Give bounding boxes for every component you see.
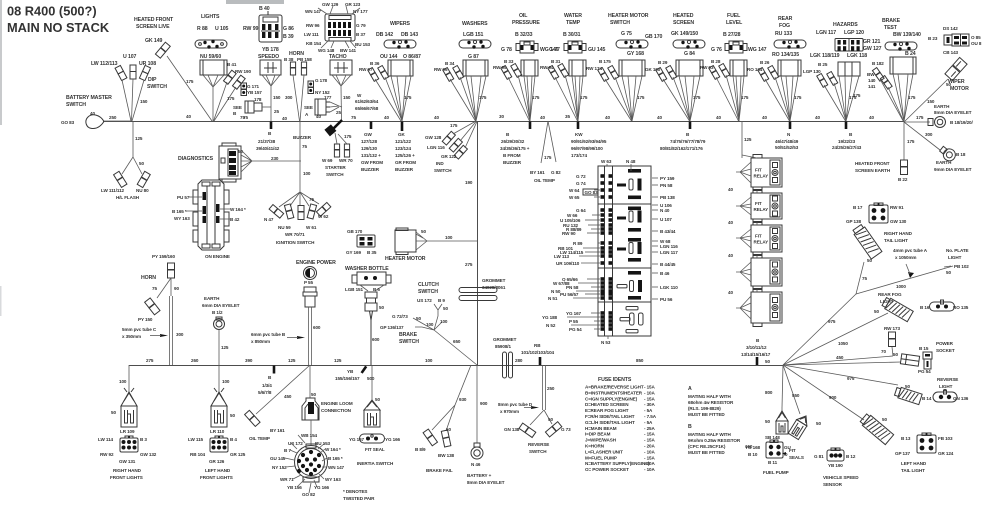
svg-text:B 13: B 13 [901, 436, 911, 441]
svg-text:175: 175 [693, 95, 701, 100]
right hand tail light connector [852, 224, 882, 259]
svg-text:B 27/28: B 27/28 [723, 32, 741, 38]
svg-text:100: 100 [222, 379, 230, 384]
svg-text:300: 300 [176, 332, 184, 337]
svg-text:35: 35 [565, 114, 570, 119]
svg-text:U 105: U 105 [215, 26, 229, 32]
svg-text:YB: YB [347, 369, 354, 374]
tacho feed box [330, 60, 352, 75]
svg-text:DIP: DIP [148, 77, 157, 83]
svg-text:- 25A: - 25A [644, 426, 656, 431]
ignition switch connectors [269, 205, 284, 219]
svg-text:50: 50 [421, 229, 426, 234]
reverse switch fork wires [530, 410, 552, 425]
svg-text:N 53: N 53 [601, 340, 611, 345]
svg-text:50/51/52/53: 50/51/52/53 [775, 145, 799, 150]
svg-text:OIL TEMP: OIL TEMP [534, 178, 555, 183]
svg-text:BW 139/140: BW 139/140 [893, 32, 921, 38]
svg-text:GW 129: GW 129 [322, 2, 339, 7]
svg-text:25: 25 [336, 110, 341, 115]
svg-text:800: 800 [765, 390, 773, 395]
lights fan wires [203, 75, 224, 87]
svg-text:230: 230 [271, 156, 279, 161]
svg-text:B 36: B 36 [370, 61, 380, 66]
scan streak left edge [0, 0, 2, 125]
svg-text:FRONT LIGHTS: FRONT LIGHTS [200, 475, 233, 480]
heater motor box [395, 228, 416, 255]
svg-text:G 72: G 72 [576, 174, 586, 179]
wire speedo to bus [270, 86, 272, 121]
svg-text:650: 650 [453, 339, 461, 344]
svg-text:100: 100 [119, 379, 127, 384]
svg-text:600: 600 [313, 325, 321, 330]
speedo feed box [260, 60, 281, 75]
svg-text:G 171: G 171 [247, 84, 260, 89]
speedo fan [262, 75, 280, 86]
svg-text:B 182: B 182 [872, 61, 884, 66]
svg-text:CB 143: CB 143 [943, 50, 959, 55]
svg-text:19/22/23: 19/22/23 [838, 139, 856, 144]
wire tacho to bus [340, 86, 343, 121]
svg-text:IGNITION SWITCH: IGNITION SWITCH [276, 240, 315, 245]
svg-text:MUST BE FITTED: MUST BE FITTED [688, 412, 725, 417]
reverse switch tube D wire [543, 365, 546, 410]
vehicle speed sensor connector [827, 448, 844, 461]
svg-text:BUZZER: BUZZER [395, 167, 414, 172]
svg-text:R 89: R 89 [573, 241, 583, 246]
svg-text:WY 163: WY 163 [325, 477, 341, 482]
svg-text:40: 40 [384, 115, 389, 120]
svg-text:100: 100 [445, 235, 453, 240]
svg-text:LGK 118/119: LGK 118/119 [810, 53, 840, 59]
svg-text:P 55: P 55 [304, 280, 314, 285]
svg-text:FIT: FIT [789, 448, 796, 453]
svg-text:MAIN NO STACK: MAIN NO STACK [7, 20, 110, 35]
svg-text:YG 188: YG 188 [542, 315, 558, 320]
pins G178 NY152 [308, 81, 314, 94]
relay K2 fan wires [736, 197, 751, 215]
svg-text:40: 40 [815, 115, 820, 120]
svg-text:MATING HALF WITH: MATING HALF WITH [688, 394, 731, 399]
svg-text:61/62/63/64: 61/62/63/64 [355, 99, 379, 104]
right hand front lights socket [120, 436, 138, 452]
svg-text:RU 133: RU 133 [775, 31, 792, 37]
svg-text:GW FROM: GW FROM [361, 160, 383, 165]
svg-text:65/66/67/68: 65/66/67/68 [355, 106, 379, 111]
svg-text:LW 113: LW 113 [554, 254, 570, 259]
svg-text:24/25/26/27/43: 24/25/26/27/43 [832, 145, 862, 150]
svg-text:LGK 110: LGK 110 [660, 285, 678, 290]
svg-text:450: 450 [836, 355, 844, 360]
svg-text:(RLS. 199-8829): (RLS. 199-8829) [688, 406, 721, 411]
svg-text:300: 300 [285, 95, 293, 100]
lights round connector [195, 40, 227, 49]
connector PY 150 [145, 298, 160, 315]
svg-text:NU 80: NU 80 [136, 188, 149, 193]
heated front screen earth drop [903, 122, 905, 160]
svg-text:175: 175 [907, 139, 915, 144]
svg-text:G 81: G 81 [814, 454, 824, 459]
svg-text:DIAGNOSTICS: DIAGNOSTICS [178, 156, 214, 162]
svg-text:6mm pvc tube B: 6mm pvc tube B [251, 332, 286, 337]
svg-text:8mm DIA EYELET: 8mm DIA EYELET [934, 110, 972, 115]
svg-text:175: 175 [908, 95, 916, 100]
svg-text:GW 132: GW 132 [140, 452, 157, 457]
left hand front lights drop [218, 365, 220, 392]
svg-text:B 8/9: B 8/9 [415, 447, 426, 452]
reverse switch connector GN 138 [519, 423, 536, 437]
svg-text:141: 141 [868, 84, 876, 89]
svg-text:LGN 117: LGN 117 [660, 250, 678, 255]
svg-text:9Kohm 0.25w RESISTOR: 9Kohm 0.25w RESISTOR [688, 438, 741, 443]
svg-text:SWITCH: SWITCH [434, 168, 452, 173]
svg-text:CLUTCH: CLUTCH [418, 282, 439, 288]
svg-text:SENSOR: SENSOR [823, 482, 843, 487]
svg-text:50: 50 [230, 413, 235, 418]
svg-text:EARTH: EARTH [936, 160, 952, 165]
svg-text:BW 138: BW 138 [438, 453, 455, 458]
svg-text:50: 50 [765, 359, 770, 364]
svg-text:- 10A: - 10A [644, 449, 656, 454]
svg-text:LIGHT: LIGHT [939, 384, 953, 389]
svg-text:125/126 +: 125/126 + [395, 153, 415, 158]
svg-text:50: 50 [311, 392, 316, 397]
svg-text:BY 161: BY 161 [270, 428, 285, 433]
svg-text:B 12: B 12 [846, 454, 856, 459]
water temp sender connector [564, 41, 586, 53]
svg-text:40: 40 [540, 115, 545, 120]
svg-text:SEALS: SEALS [789, 455, 804, 460]
svg-text:HEATER MOTOR: HEATER MOTOR [385, 256, 426, 262]
svg-text:FUEL: FUEL [727, 13, 741, 19]
svg-text:LGB 151: LGB 151 [345, 287, 363, 292]
svg-text:68ohm 4w RESISTOR: 68ohm 4w RESISTOR [688, 400, 734, 405]
h/l flash drop wire [132, 121, 134, 157]
svg-text:W 61: W 61 [306, 225, 317, 230]
svg-text:975: 975 [847, 376, 855, 381]
svg-text:BATTERY MASTER: BATTERY MASTER [66, 95, 112, 101]
svg-text:L=FLASHER UNIT: L=FLASHER UNIT [585, 449, 623, 454]
svg-text:LW 111/112: LW 111/112 [101, 188, 125, 193]
svg-text:100: 100 [425, 358, 433, 363]
earth eyelet B18/19/20 [904, 121, 930, 123]
buzzer connector [324, 124, 336, 136]
svg-text:FIT SEAL: FIT SEAL [365, 447, 385, 452]
svg-text:70: 70 [881, 349, 886, 354]
svg-text:OU 144: OU 144 [380, 54, 397, 60]
svg-text:WIPERS: WIPERS [390, 21, 411, 27]
svg-text:RW 96: RW 96 [306, 23, 320, 28]
svg-text:- 15A: - 15A [644, 396, 656, 401]
svg-text:GP 137: GP 137 [895, 451, 910, 456]
svg-text:YG 167: YG 167 [566, 311, 582, 316]
svg-text:75: 75 [152, 286, 157, 291]
svg-text:YB 178: YB 178 [262, 47, 279, 53]
svg-text:WATER: WATER [564, 13, 582, 19]
starter switch connectors [334, 144, 339, 157]
svg-text:B 37: B 37 [356, 32, 366, 37]
svg-text:H=MAIN BEAM: H=MAIN BEAM [585, 426, 617, 431]
oil temp connector BY 161 [245, 410, 260, 426]
svg-text:B 29: B 29 [658, 60, 668, 65]
svg-text:173/174: 173/174 [571, 153, 587, 158]
svg-text:RW 190: RW 190 [235, 69, 251, 74]
fuse box ladder U1 [598, 166, 651, 336]
svg-text:75: 75 [351, 115, 356, 120]
svg-text:D=HEATED SCREEN: D=HEATED SCREEN [585, 402, 629, 407]
svg-text:LR 110: LR 110 [210, 429, 225, 434]
svg-text:REVERSE: REVERSE [528, 442, 549, 447]
ladder internal contacts [617, 169, 643, 333]
horn wires to bus [293, 75, 300, 121]
svg-text:B 24: B 24 [905, 51, 916, 57]
svg-text:WN 147: WN 147 [328, 465, 345, 470]
svg-text:US 172: US 172 [417, 298, 432, 303]
svg-text:40: 40 [434, 115, 439, 120]
svg-text:40: 40 [716, 115, 721, 120]
svg-text:B 18/19/20/: B 18/19/20/ [950, 120, 973, 125]
rear fog round connector [774, 40, 806, 49]
svg-text:FUSE IDENTS: FUSE IDENTS [598, 377, 632, 383]
svg-text:TEST: TEST [884, 25, 898, 31]
svg-text:x 850mm: x 850mm [251, 339, 270, 344]
svg-text:BUZZER: BUZZER [293, 135, 312, 140]
svg-text:FOG: FOG [779, 23, 790, 29]
svg-text:300: 300 [925, 132, 933, 137]
svg-text:PRESSURE: PRESSURE [512, 20, 540, 26]
svg-text:K=HORN: K=HORN [585, 444, 605, 449]
svg-text:LR 109: LR 109 [120, 429, 135, 434]
svg-text:BUZZER: BUZZER [503, 160, 522, 165]
scan smudge top [226, 0, 284, 4]
ind switch connectors [442, 131, 455, 145]
svg-text:J=WIPE/WASH: J=WIPE/WASH [585, 438, 617, 443]
svg-text:B 9: B 9 [438, 298, 445, 303]
washers round connector [459, 40, 491, 49]
svg-text:150: 150 [343, 95, 351, 100]
svg-text:B 18: B 18 [956, 152, 966, 157]
svg-text:275: 275 [146, 358, 154, 363]
svg-text:140: 140 [868, 78, 876, 83]
svg-text:13/14/15/16/17: 13/14/15/16/17 [741, 352, 771, 357]
svg-text:BRAKE: BRAKE [882, 18, 901, 24]
svg-text:1/3/4: 1/3/4 [262, 383, 272, 388]
svg-text:B 38: B 38 [284, 57, 294, 62]
svg-text:- 20A: - 20A [644, 444, 656, 449]
svg-text:LIGHTS: LIGHTS [201, 14, 220, 20]
svg-text:ON ENGINE: ON ENGINE [205, 254, 230, 259]
oil temp fork wires [541, 121, 556, 163]
oil pressure feed box and wires [521, 60, 538, 76]
oil pressure sender connector [516, 41, 538, 53]
wire diagnostics to ignition drop [252, 160, 301, 162]
svg-text:G 86: G 86 [283, 26, 294, 32]
svg-text:PY 159/160: PY 159/160 [152, 254, 175, 259]
svg-text:G 178: G 178 [315, 78, 328, 83]
svg-text:B 35: B 35 [367, 250, 377, 255]
relay K3 [751, 222, 782, 256]
svg-text:40: 40 [186, 114, 191, 119]
svg-text:SCREEN: SCREEN [673, 20, 694, 26]
svg-text:75: 75 [309, 197, 314, 202]
svg-text:- 10A: - 10A [644, 467, 656, 472]
wipers feed box [388, 60, 413, 76]
earth eyelet B18 [904, 122, 940, 150]
svg-text:WASHERS: WASHERS [462, 21, 488, 27]
svg-text:- 15A: - 15A [644, 432, 656, 437]
wire lights to bus [212, 87, 214, 121]
svg-text:50: 50 [867, 258, 872, 263]
svg-text:SPEEDO: SPEEDO [258, 54, 279, 60]
wire node to wiper motor [904, 79, 948, 122]
wire brake node to lower bus [434, 330, 477, 365]
svg-text:LGN 116: LGN 116 [427, 145, 445, 150]
svg-text:- 30A: - 30A [644, 461, 656, 466]
svg-text:GO 83: GO 83 [61, 120, 75, 125]
pins G171 YB157 [241, 83, 247, 96]
svg-text:NY 152: NY 152 [272, 465, 287, 470]
svg-text:RELAY: RELAY [754, 174, 769, 179]
svg-text:LGN 116: LGN 116 [660, 244, 678, 249]
heater motor switch round connector [616, 40, 648, 49]
fuel level sender connector [725, 41, 747, 53]
svg-text:MUST BE FITTED: MUST BE FITTED [688, 450, 725, 455]
svg-text:B 30/31: B 30/31 [563, 32, 581, 38]
pvc tube C wire [170, 296, 173, 365]
svg-text:W 63: W 63 [601, 159, 612, 164]
svg-text:250: 250 [109, 115, 117, 120]
svg-text:50: 50 [443, 306, 448, 311]
svg-text:- 30A: - 30A [644, 402, 656, 407]
svg-text:O= POWER SOCKET: O= POWER SOCKET [585, 467, 629, 472]
svg-text:RB: RB [534, 343, 541, 348]
svg-text:26/29/30/32: 26/29/30/32 [501, 139, 525, 144]
svg-text:GK: GK [398, 132, 405, 137]
svg-text:75: 75 [302, 144, 307, 149]
brake fail connector BW138 [441, 430, 451, 447]
svg-text:9mm DIA EYELET: 9mm DIA EYELET [934, 167, 972, 172]
svg-text:B 46: B 46 [660, 271, 670, 276]
svg-text:900: 900 [829, 395, 837, 400]
svg-text:GR 124: GR 124 [938, 451, 954, 456]
svg-text:90/91/92/93/94/95: 90/91/92/93/94/95 [571, 139, 607, 144]
brake test round connector [885, 42, 917, 51]
svg-text:850: 850 [636, 358, 644, 363]
svg-text:550: 550 [792, 393, 800, 398]
svg-text:W 64: W 64 [569, 188, 580, 193]
svg-text:127/128: 127/128 [361, 139, 377, 144]
svg-text:175: 175 [227, 96, 235, 101]
svg-text:BATTERY +: BATTERY + [467, 473, 492, 478]
svg-text:B 3: B 3 [140, 437, 147, 442]
svg-text:SWITCH: SWITCH [326, 172, 344, 177]
relay feed wire [741, 121, 743, 158]
svg-text:No. PLATE: No. PLATE [946, 248, 969, 253]
svg-text:LGP 130: LGP 130 [803, 69, 821, 74]
svg-text:YG 167: YG 167 [349, 437, 365, 442]
svg-text:LGB 151: LGB 151 [463, 32, 484, 38]
svg-text:50: 50 [946, 270, 951, 275]
svg-text:177: 177 [324, 95, 332, 100]
svg-text:HAZARDS: HAZARDS [833, 22, 858, 28]
svg-text:FB 103: FB 103 [938, 436, 953, 441]
svg-text:B 22: B 22 [898, 177, 908, 182]
svg-text:ENGINE LOOM: ENGINE LOOM [321, 401, 353, 406]
connector GK 149 [155, 42, 170, 58]
battery + eyelet N 46 [474, 443, 480, 447]
svg-text:46/47/48/49: 46/47/48/49 [775, 139, 799, 144]
svg-text:PG 54: PG 54 [569, 327, 582, 332]
svg-text:85908/1: 85908/1 [495, 344, 511, 349]
svg-text:B 15: B 15 [919, 346, 929, 351]
svg-text:GR 125: GR 125 [230, 452, 246, 457]
svg-text:RB 104: RB 104 [190, 452, 206, 457]
svg-text:FIT: FIT [755, 201, 762, 206]
svg-text:PU 57: PU 57 [177, 195, 190, 200]
svg-text:RIGHT HAND: RIGHT HAND [884, 231, 913, 236]
svg-text:600: 600 [372, 337, 380, 342]
svg-text:125: 125 [334, 358, 342, 363]
svg-text:4mm pvc tube A: 4mm pvc tube A [893, 248, 928, 253]
svg-text:G 84: G 84 [684, 51, 695, 57]
svg-text:B 165 *: B 165 * [172, 209, 187, 214]
svg-text:EARTH: EARTH [204, 296, 220, 301]
relay K1 fan wires [736, 162, 751, 183]
long vertical wire x478 [477, 121, 479, 365]
svg-text:RIGHT HAND: RIGHT HAND [113, 468, 142, 473]
svg-text:YG 168: YG 168 [745, 445, 761, 450]
washers feed box [463, 60, 488, 76]
svg-text:G 87: G 87 [468, 54, 479, 60]
svg-text:B 32/33: B 32/33 [515, 32, 533, 38]
svg-text:GW: GW [364, 132, 372, 137]
svg-text:50: 50 [379, 305, 384, 310]
lower bus ticks [273, 357, 759, 374]
wiper motor connector [945, 57, 967, 80]
svg-text:G 72/73: G 72/73 [392, 314, 408, 319]
svg-text:SOCKET: SOCKET [936, 348, 955, 353]
relay K5 [751, 289, 782, 327]
svg-text:B 41: B 41 [227, 62, 237, 67]
svg-text:N 46: N 46 [471, 462, 481, 467]
svg-text:175: 175 [186, 79, 194, 84]
svg-text:40: 40 [869, 115, 874, 120]
oil temp branch wire [256, 365, 310, 414]
right fan node rays [782, 294, 901, 420]
svg-text:RELAY: RELAY [754, 207, 769, 212]
svg-text:B 28: B 28 [711, 59, 721, 64]
svg-text:260: 260 [191, 358, 199, 363]
svg-text:123/124: 123/124 [395, 146, 411, 151]
svg-text:B 42: B 42 [230, 217, 240, 222]
svg-text:LW 115: LW 115 [188, 437, 204, 442]
lower bus wire [129, 365, 783, 367]
svg-text:LGP 120: LGP 120 [844, 30, 864, 36]
svg-text:PB 158: PB 158 [297, 57, 312, 62]
svg-text:40: 40 [282, 116, 287, 121]
svg-text:RW 173: RW 173 [884, 326, 900, 331]
svg-text:900: 900 [480, 401, 488, 406]
brake switch wires [413, 318, 434, 330]
svg-text:MOTOR: MOTOR [950, 86, 969, 92]
ignition switch fan wires [279, 192, 319, 207]
svg-text:TACHO: TACHO [329, 54, 347, 60]
left hand front lights socket [210, 436, 228, 452]
svg-text:SWITCH: SWITCH [418, 289, 438, 295]
svg-text:50: 50 [874, 309, 879, 314]
svg-text:LW 111: LW 111 [304, 32, 319, 37]
svg-text:SEE: SEE [304, 105, 313, 110]
